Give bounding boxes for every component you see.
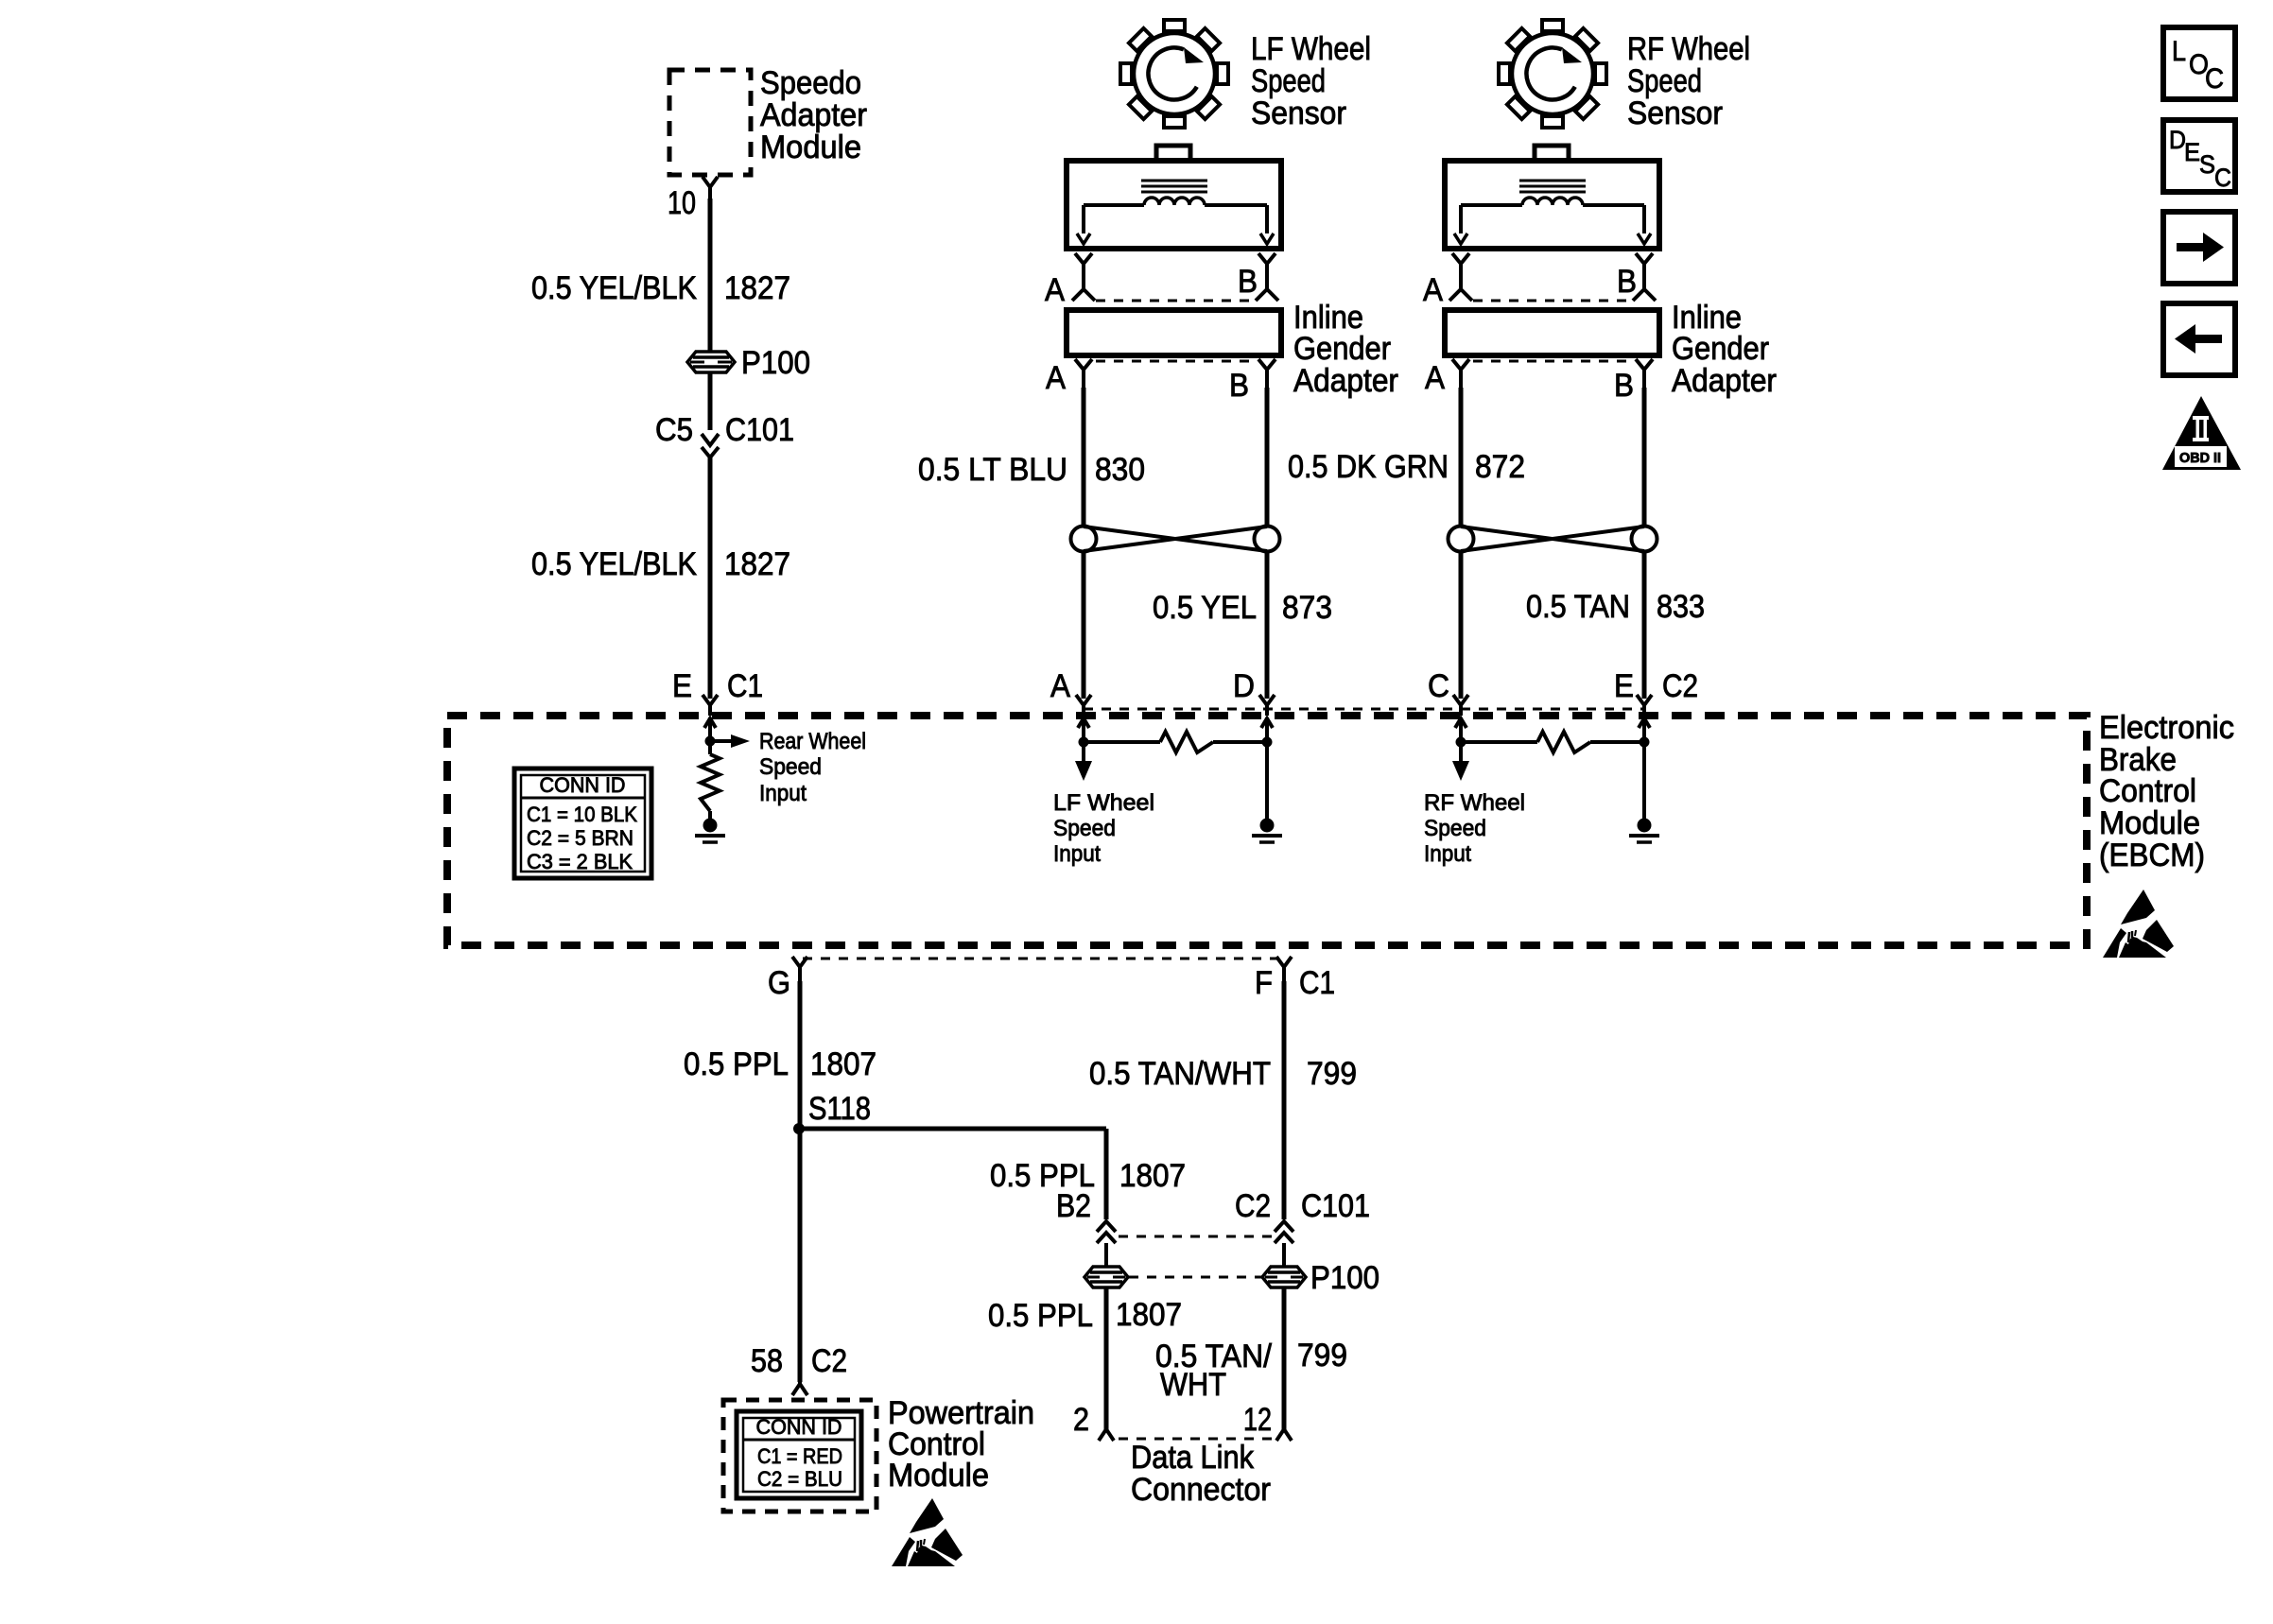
svg-text:2: 2: [1073, 1402, 1089, 1438]
svg-text:Speed: Speed: [1424, 816, 1486, 841]
svg-text:P100: P100: [1310, 1260, 1379, 1296]
svg-text:0.5 PPL: 0.5 PPL: [684, 1046, 789, 1082]
svg-text:Sensor: Sensor: [1627, 95, 1723, 131]
svg-text:E: E: [2184, 138, 2200, 166]
svg-text:1827: 1827: [724, 270, 790, 306]
svg-text:58: 58: [751, 1343, 783, 1379]
svg-text:Data Link: Data Link: [1131, 1440, 1255, 1476]
svg-text:E: E: [672, 668, 692, 704]
svg-text:1807: 1807: [1116, 1297, 1182, 1333]
svg-text:C: C: [2205, 63, 2224, 95]
svg-text:G: G: [768, 965, 790, 1001]
svg-text:RF Wheel: RF Wheel: [1627, 31, 1750, 67]
svg-text:C101: C101: [1301, 1188, 1370, 1224]
svg-text:RF Wheel: RF Wheel: [1424, 790, 1525, 816]
svg-text:A: A: [1423, 272, 1443, 308]
svg-text:873: 873: [1282, 590, 1332, 626]
svg-text:C1 = RED: C1 = RED: [757, 1444, 842, 1468]
svg-text:LF Wheel: LF Wheel: [1251, 31, 1371, 67]
svg-text:0.5 LT BLU: 0.5 LT BLU: [918, 452, 1067, 488]
svg-text:Adapter: Adapter: [1293, 363, 1398, 399]
svg-text:CONN ID: CONN ID: [756, 1415, 842, 1439]
svg-text:(EBCM): (EBCM): [2099, 838, 2205, 873]
svg-text:A: A: [1425, 360, 1445, 396]
svg-text:A: A: [1046, 360, 1066, 396]
svg-text:C: C: [1428, 668, 1449, 704]
svg-text:E: E: [1614, 668, 1634, 704]
svg-text:Input: Input: [759, 781, 807, 806]
svg-text:B2: B2: [1056, 1188, 1091, 1224]
svg-text:Input: Input: [1424, 841, 1471, 867]
svg-text:C2 = 5 BRN: C2 = 5 BRN: [527, 826, 633, 850]
svg-text:Speed: Speed: [1053, 816, 1116, 841]
svg-text:Speed: Speed: [1251, 63, 1326, 99]
svg-text:C5: C5: [655, 412, 693, 448]
svg-text:B: B: [1617, 264, 1637, 300]
svg-text:799: 799: [1297, 1338, 1347, 1373]
svg-text:0.5 TAN: 0.5 TAN: [1526, 589, 1630, 625]
svg-text:C101: C101: [725, 412, 794, 448]
svg-text:C2: C2: [811, 1343, 847, 1379]
svg-text:C3 = 2 BLK: C3 = 2 BLK: [527, 850, 633, 873]
svg-text:D: D: [1233, 668, 1255, 704]
svg-text:C1 = 10 BLK: C1 = 10 BLK: [527, 803, 637, 826]
svg-text:12: 12: [1243, 1402, 1272, 1438]
svg-text:OBD II: OBD II: [2179, 450, 2221, 466]
svg-text:Speed: Speed: [1627, 63, 1702, 99]
svg-text:0.5 PPL: 0.5 PPL: [988, 1298, 1093, 1334]
svg-text:872: 872: [1475, 449, 1525, 485]
svg-text:1807: 1807: [1119, 1158, 1186, 1194]
svg-text:Gender: Gender: [1672, 331, 1769, 367]
svg-text:0.5 TAN/WHT: 0.5 TAN/WHT: [1089, 1056, 1271, 1092]
svg-text:Connector: Connector: [1131, 1472, 1271, 1508]
svg-text:C1: C1: [1299, 965, 1335, 1001]
svg-text:S: S: [2199, 150, 2215, 179]
svg-text:C2: C2: [1235, 1188, 1271, 1224]
svg-text:B: B: [1238, 264, 1258, 300]
svg-text:0.5 YEL: 0.5 YEL: [1153, 590, 1257, 626]
svg-text:Input: Input: [1053, 841, 1101, 867]
svg-text:B: B: [1229, 368, 1249, 404]
svg-text:Speed: Speed: [759, 754, 822, 780]
svg-text:LF Wheel: LF Wheel: [1053, 790, 1154, 816]
svg-text:P100: P100: [741, 345, 810, 381]
svg-text:S118: S118: [808, 1091, 871, 1127]
svg-text:830: 830: [1095, 452, 1145, 488]
svg-text:Sensor: Sensor: [1251, 95, 1346, 131]
svg-text:Module: Module: [2099, 805, 2200, 841]
svg-text:Adapter: Adapter: [1672, 363, 1777, 399]
svg-text:Module: Module: [760, 130, 861, 165]
svg-text:F: F: [1255, 965, 1273, 1001]
svg-text:C1: C1: [727, 668, 763, 704]
svg-text:799: 799: [1307, 1056, 1357, 1092]
svg-text:833: 833: [1657, 589, 1705, 625]
svg-text:C: C: [2214, 164, 2231, 192]
svg-text:C2: C2: [1662, 668, 1698, 704]
svg-text:C2 = BLU: C2 = BLU: [757, 1467, 842, 1491]
svg-text:0.5 DK GRN: 0.5 DK GRN: [1288, 449, 1449, 485]
svg-text:Electronic: Electronic: [2099, 710, 2234, 746]
svg-text:Gender: Gender: [1293, 331, 1391, 367]
svg-text:0.5 YEL/BLK: 0.5 YEL/BLK: [531, 546, 697, 582]
svg-text:Control: Control: [2099, 773, 2196, 809]
svg-text:1827: 1827: [724, 546, 790, 582]
svg-text:A: A: [1050, 668, 1070, 704]
svg-text:Adapter: Adapter: [760, 97, 867, 133]
svg-text:B: B: [1614, 368, 1634, 404]
svg-text:1807: 1807: [810, 1046, 876, 1082]
svg-text:CONN ID: CONN ID: [540, 773, 626, 797]
svg-text:A: A: [1045, 272, 1065, 308]
svg-text:0.5 YEL/BLK: 0.5 YEL/BLK: [531, 270, 697, 306]
svg-text:10: 10: [668, 185, 696, 221]
svg-text:L: L: [2172, 36, 2186, 67]
svg-text:Rear Wheel: Rear Wheel: [759, 729, 866, 754]
svg-text:Module: Module: [888, 1458, 989, 1494]
svg-text:WHT: WHT: [1160, 1367, 1226, 1403]
svg-text:Speedo: Speedo: [760, 65, 861, 101]
